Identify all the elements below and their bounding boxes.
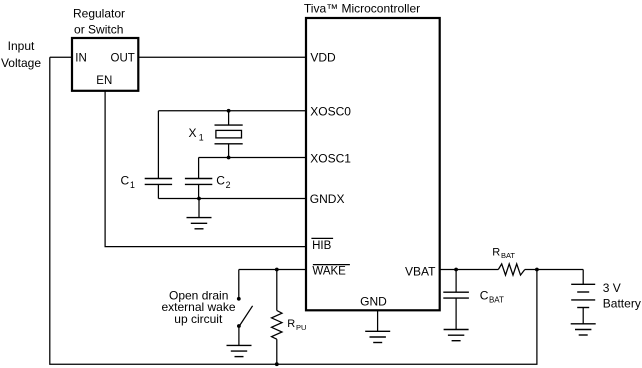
svg-text:WAKE: WAKE	[312, 266, 346, 278]
svg-text:HIB: HIB	[312, 240, 332, 252]
svg-text:3 V: 3 V	[603, 281, 621, 295]
svg-text:Voltage: Voltage	[1, 56, 41, 70]
svg-text:up circuit: up circuit	[174, 312, 223, 326]
svg-text:XOSC1: XOSC1	[310, 151, 351, 165]
svg-text:or Switch: or Switch	[74, 22, 123, 36]
svg-text:EN: EN	[96, 75, 112, 87]
svg-text:XOSC0: XOSC0	[310, 104, 351, 118]
svg-text:VBAT: VBAT	[405, 265, 436, 279]
svg-text:GND: GND	[360, 295, 387, 309]
svg-text:Input: Input	[8, 39, 35, 53]
svg-text:Battery: Battery	[603, 296, 641, 310]
svg-text:Regulator: Regulator	[73, 6, 125, 20]
svg-text:GNDX: GNDX	[310, 192, 345, 206]
svg-text:IN: IN	[75, 52, 87, 64]
svg-text:VDD: VDD	[310, 51, 336, 65]
svg-text:OUT: OUT	[111, 52, 135, 64]
svg-text:Tiva™ Microcontroller: Tiva™ Microcontroller	[304, 2, 420, 16]
